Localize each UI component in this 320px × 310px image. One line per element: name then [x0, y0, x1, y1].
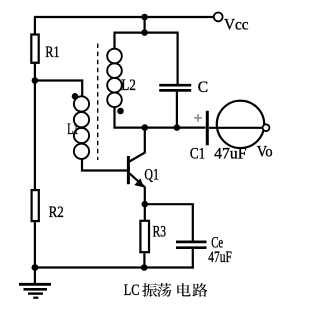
wire collector rail: [113, 126, 205, 128]
capacitor C1 plate: [206, 111, 209, 146]
node C branch junction: [174, 124, 181, 131]
wire bottom rail: [35, 266, 194, 268]
node L2 feed junction: [141, 29, 148, 36]
wire left rail middle: [34, 64, 36, 190]
svg-text:47uF: 47uF: [208, 249, 232, 266]
capacitor Ce: [176, 241, 207, 244]
transistor Q1 collector lead: [129, 128, 144, 162]
node emitter junction: [142, 201, 149, 208]
inductor L1: [74, 96, 89, 159]
svg-text:R2: R2: [49, 204, 64, 221]
wire L1 bottom to base: [82, 159, 127, 170]
node R3 ground junction: [141, 264, 148, 271]
resistor R1: [31, 35, 38, 63]
L2 polarity dot: [117, 108, 124, 115]
wire L2 bottom drop: [113, 107, 115, 128]
wire left rail lower: [34, 222, 36, 267]
inductor L2: [107, 49, 122, 107]
svg-text:C: C: [198, 79, 208, 96]
capacitor C1 polarity plus: [194, 114, 202, 122]
transformer core dashed: [97, 44, 99, 161]
terminal Vcc: [214, 13, 223, 22]
node collector junction: [142, 124, 149, 131]
wire C lower stem: [176, 92, 178, 128]
transistor Q1 emitter lead: [129, 173, 144, 204]
svg-text:Vcc: Vcc: [224, 17, 249, 34]
wire emitter to R3: [144, 204, 146, 221]
svg-text:R3: R3: [153, 224, 167, 241]
wire L2 top to capacitor C: [115, 33, 178, 84]
svg-text:Vo: Vo: [257, 143, 273, 160]
caption LC oscillator hanzi: [142, 283, 207, 297]
resistor R2: [32, 190, 39, 221]
svg-text:LC: LC: [124, 282, 140, 299]
output transducer circle: [217, 101, 264, 148]
capacitor C: [159, 84, 191, 87]
wire R3 bottom: [143, 253, 145, 267]
wire emitter to Ce: [145, 204, 193, 240]
svg-text:L2: L2: [121, 77, 136, 94]
output line through transducer: [209, 127, 262, 129]
svg-text:C1: C1: [190, 146, 205, 163]
L1 polarity dot: [72, 93, 79, 100]
ground: [19, 268, 51, 298]
terminal Vo: [263, 124, 270, 131]
resistor R3: [140, 221, 149, 252]
wire Ce bottom stem: [192, 249, 194, 269]
svg-text:L1: L1: [67, 121, 78, 138]
wire top rail: [34, 16, 214, 18]
wire junction drop: [144, 17, 146, 33]
node top junction: [141, 14, 148, 21]
svg-text:R1: R1: [45, 44, 59, 61]
wire bias to L1 top: [35, 81, 82, 97]
wire left rail upper: [34, 17, 36, 35]
transistor Q1 base bar: [127, 156, 130, 184]
transistor Q1 emitter arrow: [134, 178, 144, 187]
node bias junction: [32, 77, 39, 84]
svg-text:Q1: Q1: [144, 166, 159, 183]
node ground junction: [32, 264, 39, 271]
